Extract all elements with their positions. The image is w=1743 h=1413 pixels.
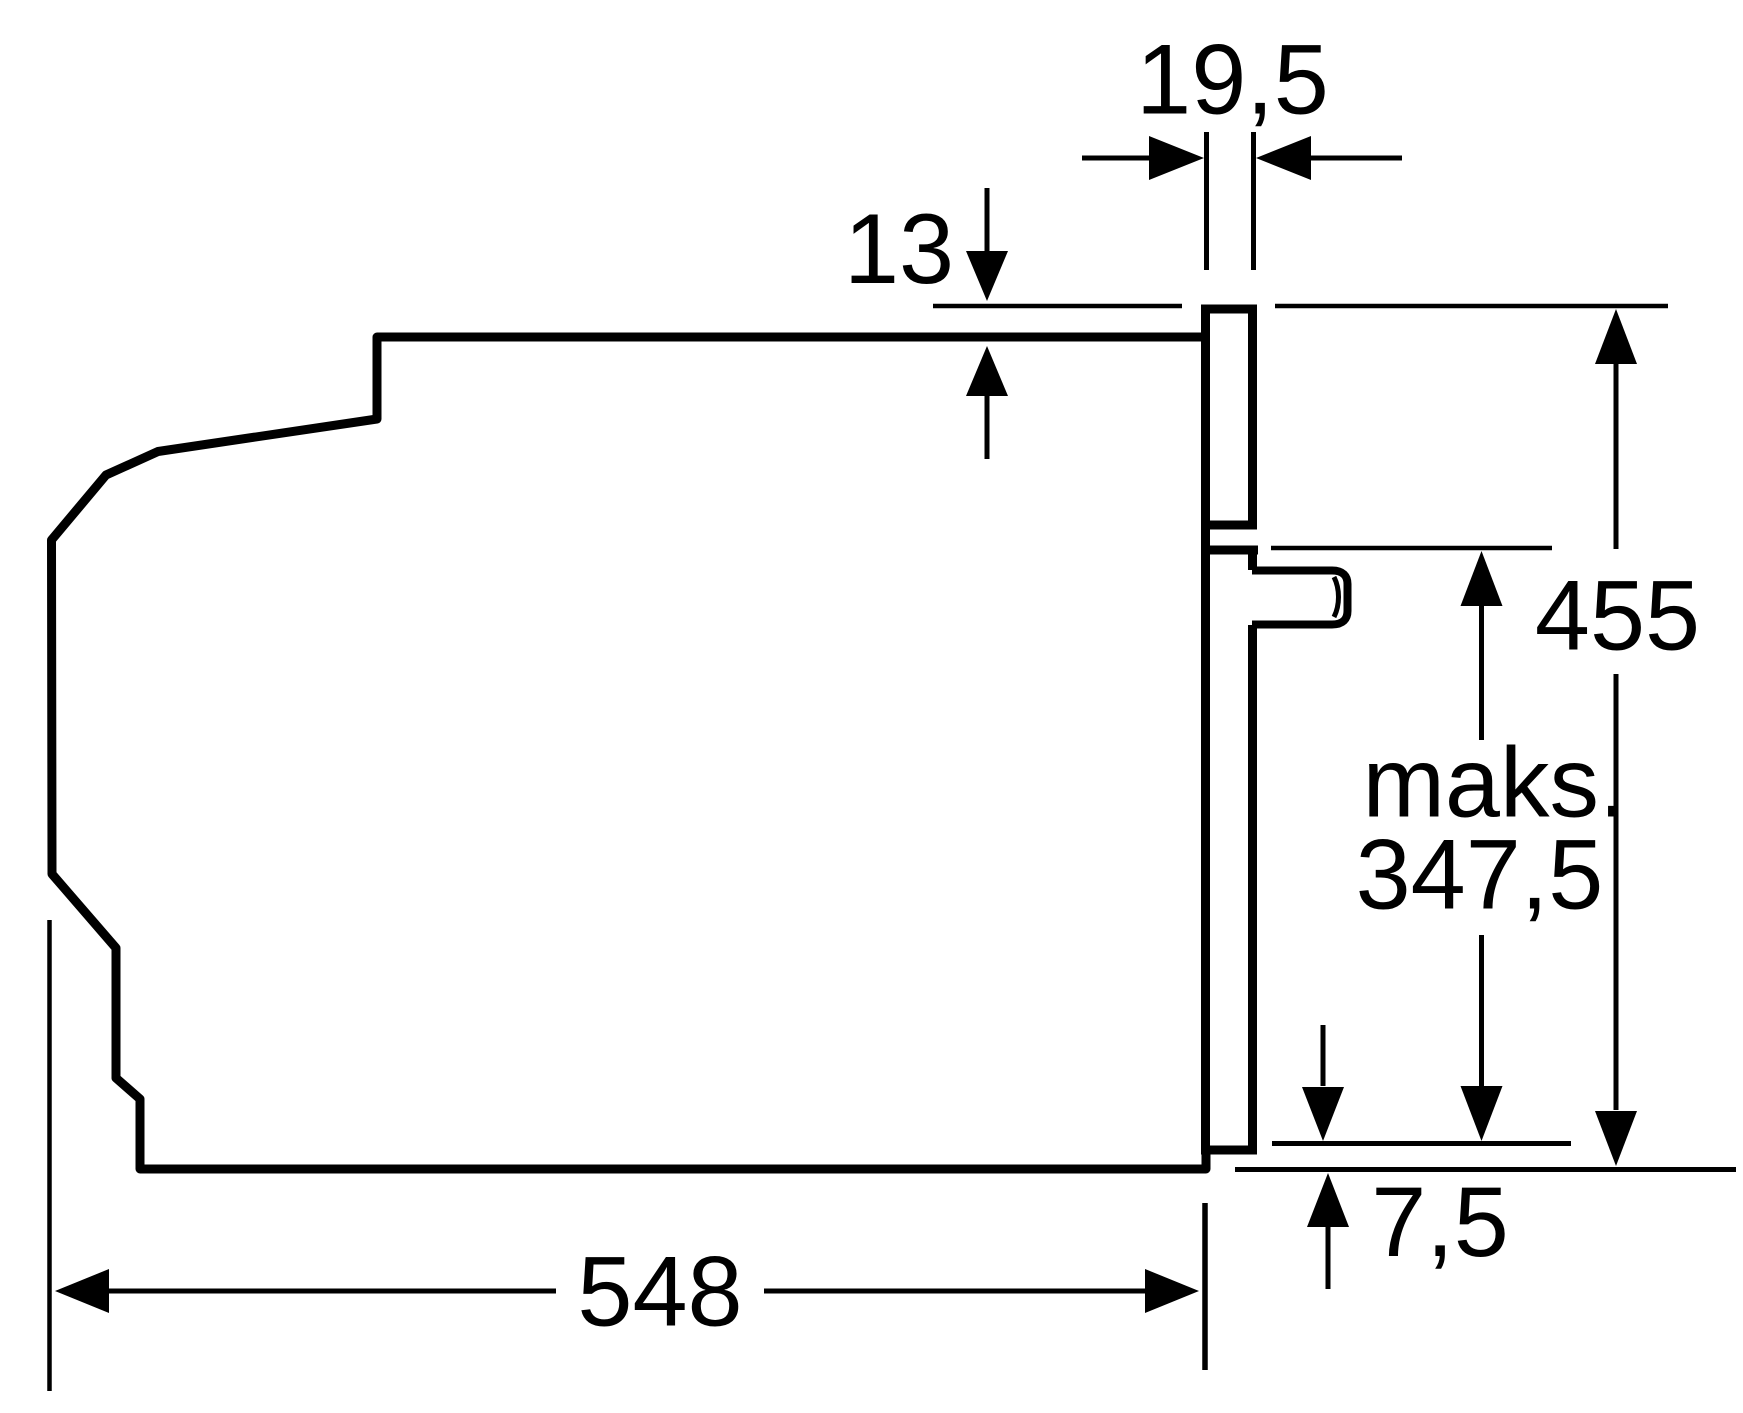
niche top line left segment [933,304,1182,309]
7,5 up arrow to line B [1326,1226,1331,1289]
svg-text:7,5: 7,5 [1371,1166,1509,1277]
548 extension line left [47,920,52,1391]
control panel right edge below knob [1248,625,1257,1155]
548 dimension line left part [106,1289,556,1294]
door front panel top cap [1201,305,1257,314]
svg-text:13: 13 [844,193,954,304]
knob inner line [1334,577,1339,617]
13 up arrow [985,396,990,459]
lower reference line B (niche bottom) [1235,1167,1736,1172]
maks. 347,5 dimension line lower [1479,935,1484,1087]
door front panel left edge [1201,305,1210,1155]
455 dimension line upper [1614,362,1619,549]
small down arrow to line A [1321,1025,1326,1086]
548 extension line right [1202,1203,1208,1370]
svg-text:347,5: 347,5 [1356,819,1604,930]
niche top line right segment [1275,304,1668,309]
oven body outline [52,337,1210,1169]
19,5 dimension arrow left [1082,156,1152,161]
door front panel right edge upper [1248,305,1257,526]
control panel top cap [1201,546,1258,555]
548 dimension line right part [764,1289,1151,1294]
455 dimension line lower [1614,674,1619,1110]
svg-text:548: 548 [577,1236,742,1347]
knob outline [1252,571,1348,625]
lower reference line A [1272,1141,1571,1146]
svg-text:455: 455 [1535,560,1700,671]
control panel right edge above knob [1248,550,1257,570]
door upper section bottom cap [1201,521,1257,530]
19,5 dimension arrow right [1311,156,1402,161]
13 down arrow [985,188,990,252]
19,5 extension line right [1251,132,1256,270]
maks. 347,5 top reference line [1271,546,1552,551]
svg-text:19,5: 19,5 [1136,24,1329,135]
door bottom cap [1201,1146,1257,1155]
maks. 347,5 dimension line upper [1479,604,1484,740]
19,5 extension line left [1204,132,1209,270]
